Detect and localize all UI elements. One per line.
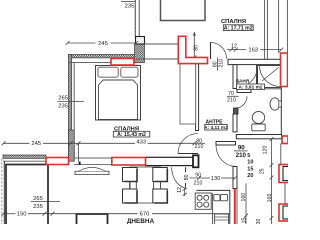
svg-text:160: 160 (267, 194, 273, 203)
svg-text:245: 245 (98, 41, 108, 47)
svg-text:А: 17,71 m2: А: 17,71 m2 (224, 26, 253, 32)
svg-text:235: 235 (125, 3, 135, 9)
svg-text:80: 80 (184, 174, 190, 180)
svg-text:5: 5 (247, 153, 250, 159)
svg-text:670: 670 (140, 212, 150, 218)
svg-text:80: 80 (212, 61, 218, 67)
svg-text:А: 3,91 m2: А: 3,91 m2 (239, 84, 263, 90)
svg-text:70: 70 (228, 91, 234, 97)
svg-text:20: 20 (247, 173, 253, 179)
svg-text:СПАЛНЯ: СПАЛНЯ (221, 19, 246, 25)
svg-text:25: 25 (259, 168, 265, 174)
svg-text:12: 12 (231, 44, 237, 50)
svg-text:120: 120 (263, 146, 269, 155)
svg-text:15: 15 (242, 218, 248, 224)
svg-text:265: 265 (33, 196, 43, 202)
svg-text:210: 210 (195, 144, 204, 150)
svg-text:15: 15 (247, 166, 253, 172)
svg-text:210: 210 (227, 97, 236, 103)
svg-text:30: 30 (256, 219, 262, 224)
svg-text:130: 130 (211, 176, 221, 182)
svg-text:433: 433 (136, 140, 146, 146)
svg-text:90: 90 (195, 172, 201, 178)
svg-text:265: 265 (58, 96, 68, 102)
svg-text:90: 90 (238, 144, 245, 151)
svg-text:ДНЕВНА: ДНЕВНА (127, 218, 155, 224)
svg-text:БАНЯ: БАНЯ (236, 78, 250, 83)
svg-text:163: 163 (248, 47, 258, 53)
svg-text:150: 150 (17, 212, 27, 218)
svg-text:10: 10 (247, 160, 253, 166)
svg-text:А: 15,43 m2: А: 15,43 m2 (117, 132, 146, 138)
svg-text:210: 210 (219, 59, 225, 68)
svg-text:245: 245 (31, 141, 41, 147)
svg-text:80: 80 (193, 45, 199, 51)
svg-text:А: 4,11 m2: А: 4,11 m2 (204, 125, 228, 131)
svg-text:210: 210 (194, 180, 203, 186)
svg-text:160: 160 (241, 193, 247, 202)
svg-text:210: 210 (236, 152, 247, 159)
svg-text:12: 12 (177, 187, 183, 193)
svg-text:235: 235 (58, 104, 68, 110)
svg-text:235: 235 (33, 204, 43, 210)
